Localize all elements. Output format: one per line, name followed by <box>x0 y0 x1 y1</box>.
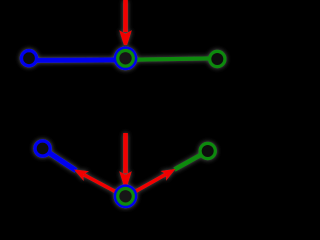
node: bottom-center joint inner green ring <box>118 189 134 205</box>
node: top-center joint inner green ring <box>118 51 134 67</box>
arrow: bottom red vertical force arrow <box>119 133 132 186</box>
node: top-left blue circle <box>21 51 36 66</box>
arrow: bottom-left red reaction arrow (points up-left) <box>74 170 126 198</box>
wire: top blue edge <box>29 57 126 63</box>
node: top-right green circle <box>210 51 225 66</box>
wire: top green edge <box>126 58 218 60</box>
node: bottom-right green circle <box>200 143 215 158</box>
node: bottom-center joint outer blue ring <box>115 186 135 206</box>
node: bottom-left blue circle <box>35 141 50 156</box>
node: top-center joint outer blue ring <box>115 48 135 68</box>
arrow: top red force arrow <box>119 0 132 45</box>
wire: bottom blue link <box>43 149 76 171</box>
wire: bottom green link <box>175 151 208 170</box>
arrow: bottom-right red reaction arrow (points up-right) <box>126 169 176 197</box>
